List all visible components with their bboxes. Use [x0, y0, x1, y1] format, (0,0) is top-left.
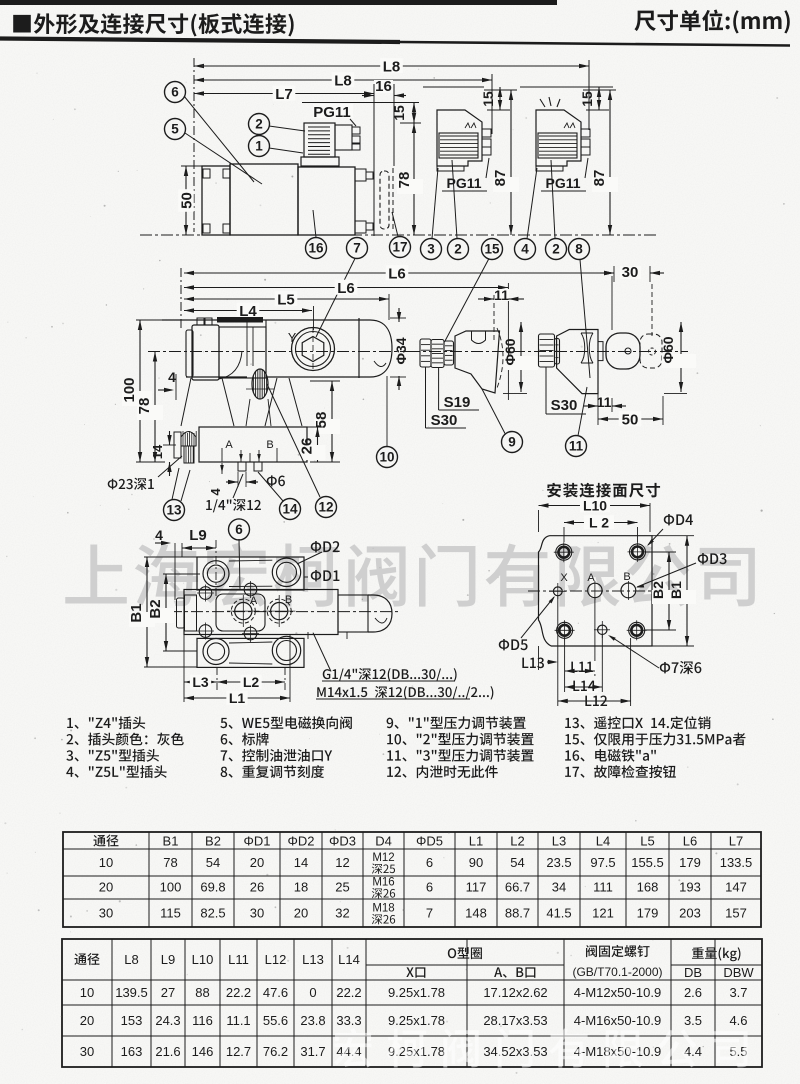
svg-text:2.6: 2.6 — [684, 985, 702, 1000]
svg-text:A: A — [225, 439, 233, 451]
svg-text:S30: S30 — [431, 412, 458, 429]
extension line left x194 — [193, 58, 195, 232]
svg-text:L1: L1 — [469, 834, 483, 849]
svg-text:11: 11 — [597, 394, 612, 410]
dim 50 variant2 — [598, 396, 663, 428]
dim L11 — [565, 661, 596, 674]
svg-text:4-M12x50-10.9: 4-M12x50-10.9 — [574, 985, 661, 1000]
svg-text:DB: DB — [684, 965, 702, 980]
dim B1 top view — [128, 557, 197, 667]
label PG11 variant2 — [541, 158, 588, 191]
dim 100 — [121, 320, 165, 462]
svg-text:Φ34: Φ34 — [393, 337, 409, 364]
svg-text:116: 116 — [192, 1013, 213, 1028]
callout 6 — [165, 82, 255, 183]
svg-text:10: 10 — [379, 450, 394, 465]
svg-text:ΦD2: ΦD2 — [288, 834, 315, 849]
dim L8 lower — [194, 72, 492, 89]
table 1 grid — [63, 832, 761, 927]
svg-text:9: 9 — [508, 435, 516, 450]
svg-text:87: 87 — [492, 170, 509, 187]
svg-text:22.2: 22.2 — [226, 985, 251, 1000]
svg-text:L14: L14 — [338, 952, 360, 967]
svg-text:30: 30 — [622, 264, 639, 281]
centerline top drawing — [140, 234, 656, 236]
svg-text:168: 168 — [637, 880, 659, 895]
push button item17 dashed — [380, 168, 393, 232]
svg-text:6: 6 — [171, 85, 179, 100]
dim 26 — [299, 427, 326, 462]
svg-text:L5: L5 — [277, 291, 295, 308]
callout 6 top view — [229, 519, 250, 590]
adjuster1 dashed circle — [494, 295, 503, 388]
svg-text:58: 58 — [313, 412, 330, 429]
svg-text:A: A — [250, 595, 258, 607]
small hole phi7 — [594, 621, 610, 638]
label phi23 — [108, 456, 182, 490]
svg-text:M18: M18 — [372, 903, 394, 915]
svg-text:193: 193 — [679, 880, 701, 895]
svg-text:14: 14 — [294, 855, 308, 870]
extension x389 — [388, 294, 390, 320]
extension line x492 — [491, 74, 493, 134]
label S19 — [439, 367, 479, 411]
svg-text:153: 153 — [121, 1013, 143, 1028]
callout 2 plug — [249, 114, 306, 135]
watermark company name — [65, 543, 755, 607]
extension dash x181 — [180, 268, 182, 330]
svg-text:203: 203 — [679, 906, 701, 921]
svg-text:30: 30 — [250, 906, 264, 921]
dim 15 variant1 — [480, 87, 510, 110]
solenoid side view — [186, 318, 219, 380]
svg-text:L10: L10 — [583, 498, 607, 514]
label phiD3 — [636, 553, 727, 588]
valve body side view — [162, 320, 370, 378]
svg-text:55.6: 55.6 — [263, 1013, 288, 1028]
svg-text:47.6: 47.6 — [263, 985, 288, 1000]
dim 14 — [150, 431, 176, 476]
centerline adjusters — [408, 351, 688, 353]
svg-text:147: 147 — [725, 880, 747, 895]
svg-text:8: 8 — [575, 242, 583, 257]
svg-text:34.52x3.53: 34.52x3.53 — [483, 1044, 547, 1059]
adjuster2 stem and wingnut — [598, 333, 640, 369]
svg-text:M16: M16 — [372, 877, 394, 889]
svg-text:88.7: 88.7 — [505, 906, 530, 921]
white watermark bottom — [334, 1028, 748, 1067]
svg-text:4: 4 — [521, 242, 529, 257]
end cap round — [359, 318, 392, 378]
svg-text:11: 11 — [494, 287, 509, 303]
svg-text:117: 117 — [466, 880, 487, 895]
label S30 variant2 — [546, 367, 586, 414]
callout 7 — [316, 238, 368, 338]
svg-text:Y: Y — [288, 331, 297, 345]
header title — [13, 13, 293, 36]
dim 30 — [600, 264, 664, 282]
svg-text:90: 90 — [469, 855, 483, 870]
svg-text:30: 30 — [80, 1044, 94, 1059]
svg-text:B2: B2 — [650, 581, 666, 599]
svg-text:24.3: 24.3 — [155, 1013, 180, 1028]
solenoid block — [298, 167, 355, 235]
label PG11 variant1 — [442, 158, 489, 191]
mounting bolt holes — [554, 542, 574, 562]
table 2 content — [74, 945, 754, 1059]
dim 11 variant1 — [478, 287, 524, 303]
port Y boss — [292, 327, 335, 372]
svg-text:L12: L12 — [265, 952, 287, 967]
svg-text:115: 115 — [160, 906, 181, 921]
svg-text:DBW: DBW — [723, 965, 754, 980]
svg-text:23.5: 23.5 — [546, 855, 571, 870]
svg-text:ΦD1: ΦD1 — [244, 834, 271, 849]
svg-text:L3: L3 — [552, 834, 566, 849]
svg-text:L6: L6 — [683, 834, 697, 849]
svg-text:ΦD5: ΦD5 — [416, 834, 443, 849]
header top bar — [0, 0, 557, 5]
svg-text:20: 20 — [250, 855, 264, 870]
dim L8 upper — [194, 58, 589, 75]
dim L4 — [184, 303, 312, 320]
svg-text:14: 14 — [282, 502, 298, 517]
dim L13 — [522, 646, 557, 670]
dim phi60 variant1 — [502, 322, 538, 393]
svg-text:28.17x3.53: 28.17x3.53 — [483, 1013, 547, 1028]
svg-text:20: 20 — [294, 906, 308, 921]
dim L1 — [184, 634, 290, 706]
svg-text:11: 11 — [569, 439, 584, 454]
adjuster top view — [308, 595, 392, 639]
dim B2 mounting — [645, 552, 678, 630]
extension x508 — [507, 283, 509, 400]
callout 13 — [164, 468, 191, 521]
svg-text:20: 20 — [80, 1013, 94, 1028]
svg-text:34: 34 — [552, 880, 566, 895]
label phi6 — [267, 475, 285, 486]
header rule — [0, 39, 790, 46]
svg-text:15: 15 — [391, 105, 407, 121]
label phi7deep6 — [608, 635, 701, 674]
dim L2 top view — [217, 667, 285, 690]
svg-text:121: 121 — [592, 906, 614, 921]
svg-text:22.2: 22.2 — [336, 985, 361, 1000]
valve left plate — [202, 166, 230, 235]
svg-text:L9: L9 — [161, 952, 175, 967]
svg-text:X: X — [560, 572, 568, 584]
label S30 variant1 — [426, 367, 467, 429]
bottom strip — [197, 636, 304, 667]
svg-text:9.25x1.78: 9.25x1.78 — [388, 1013, 445, 1028]
svg-text:L9: L9 — [189, 527, 207, 544]
svg-text:27: 27 — [161, 985, 175, 1000]
svg-text:26: 26 — [250, 880, 264, 895]
callout 16 — [306, 210, 327, 259]
svg-text:111: 111 — [593, 880, 613, 895]
dim phi60 variant2 — [660, 322, 696, 394]
label phiD4 — [647, 514, 693, 546]
label phiD5 — [499, 596, 555, 650]
svg-text:10: 10 — [99, 855, 113, 870]
port stubs — [238, 462, 262, 471]
callout 5 — [165, 119, 263, 185]
svg-text:16: 16 — [375, 78, 392, 95]
dim L6 lower — [184, 280, 508, 297]
adjuster2 dashed handwheel — [640, 334, 662, 368]
svg-text:78: 78 — [163, 855, 177, 870]
svg-text:S30: S30 — [551, 397, 578, 414]
reference line y87 variant1 — [423, 86, 484, 88]
port X hole — [549, 572, 568, 599]
svg-text:L8: L8 — [334, 72, 352, 89]
svg-text:L8: L8 — [124, 952, 138, 967]
adjuster2 body — [557, 330, 598, 394]
label G quarter — [313, 633, 457, 682]
svg-text:B: B — [285, 594, 292, 606]
vertical ext lines mounting — [558, 596, 631, 706]
plug body with stripes — [304, 123, 335, 157]
svg-text:100: 100 — [160, 880, 182, 895]
centerline side view — [148, 351, 420, 353]
bottom block — [199, 427, 307, 462]
label phiD1 — [304, 570, 339, 581]
svg-text:66.7: 66.7 — [505, 880, 530, 895]
solenoid side tabs — [355, 169, 373, 233]
svg-text:78: 78 — [396, 172, 413, 189]
spool A — [227, 595, 260, 627]
svg-text:4: 4 — [208, 488, 223, 496]
adjuster2 knob stack — [539, 334, 560, 367]
svg-text:L 2: L 2 — [589, 515, 609, 531]
dim 4 upper — [158, 369, 176, 400]
svg-text:50: 50 — [178, 192, 195, 209]
svg-text:50: 50 — [622, 411, 639, 428]
svg-text:Φ60: Φ60 — [502, 338, 518, 365]
dim 15 main — [391, 103, 421, 124]
dim L5 — [184, 291, 389, 308]
svg-text:31.7: 31.7 — [300, 1044, 325, 1059]
table 1 content — [93, 834, 752, 925]
svg-text:A: A — [587, 572, 595, 584]
svg-text:L3: L3 — [192, 674, 209, 690]
svg-text:88: 88 — [195, 985, 209, 1000]
svg-text:B: B — [266, 439, 273, 451]
svg-text:7: 7 — [353, 241, 361, 256]
callout 2 variant2 — [546, 160, 567, 260]
svg-text:L5: L5 — [640, 834, 654, 849]
svg-text:6: 6 — [426, 855, 433, 870]
dim 11 variant2 — [584, 394, 626, 425]
svg-text:2: 2 — [454, 242, 462, 257]
dim 50 — [178, 166, 202, 235]
svg-text:15: 15 — [484, 242, 500, 257]
reference line y87 variant2 — [520, 86, 613, 88]
svg-text:L1: L1 — [229, 690, 246, 706]
svg-text:L7: L7 — [729, 834, 743, 849]
dim 4 top view — [155, 527, 182, 600]
top strip — [197, 557, 304, 590]
svg-text:S19: S19 — [444, 394, 471, 411]
svg-text:10: 10 — [80, 985, 94, 1000]
svg-text:4: 4 — [168, 369, 176, 385]
left bracket top view — [177, 595, 197, 631]
svg-text:12: 12 — [318, 500, 333, 515]
port marks A B — [222, 439, 277, 462]
callout 3 — [421, 168, 442, 260]
svg-text:B2: B2 — [147, 599, 164, 618]
port A hole — [587, 572, 602, 600]
plug base — [301, 157, 339, 166]
mounting centerline — [528, 590, 658, 592]
dim B2 top view — [147, 574, 200, 651]
svg-text:4.6: 4.6 — [729, 1013, 747, 1028]
svg-text:Φ60: Φ60 — [660, 336, 676, 363]
svg-text:L10: L10 — [192, 952, 214, 967]
svg-text:PG11: PG11 — [545, 175, 580, 191]
svg-text:D4: D4 — [375, 834, 392, 849]
extension x313 Y center — [313, 306, 315, 330]
svg-text:179: 179 — [679, 855, 701, 870]
svg-text:13: 13 — [166, 503, 182, 518]
svg-text:16: 16 — [308, 241, 324, 256]
svg-text:17.12x2.62: 17.12x2.62 — [483, 985, 547, 1000]
svg-text:18: 18 — [294, 880, 308, 895]
reference line y102 — [302, 102, 419, 104]
svg-text:32: 32 — [335, 906, 349, 921]
svg-text:30: 30 — [99, 906, 113, 921]
legend — [66, 716, 745, 778]
vertical line x374 — [373, 84, 375, 236]
svg-text:6: 6 — [426, 880, 433, 895]
svg-text:L6: L6 — [337, 280, 355, 297]
svg-text:3: 3 — [427, 242, 435, 257]
callout 11 — [566, 387, 588, 457]
svg-text:B2: B2 — [205, 834, 221, 849]
dim L6 upper — [184, 265, 614, 282]
table 2 grid — [62, 939, 762, 1067]
callout 17 — [390, 212, 411, 258]
extension x612 variant2 — [611, 276, 613, 330]
port B hole — [621, 571, 636, 600]
dim L12 — [558, 695, 631, 708]
mounting face title — [547, 483, 660, 498]
svg-text:163: 163 — [121, 1044, 143, 1059]
bolt holes top view — [197, 585, 214, 602]
svg-text:9.25x1.78: 9.25x1.78 — [388, 985, 445, 1000]
adjuster1 body — [455, 331, 500, 393]
dim 16 — [362, 78, 406, 98]
svg-text:133.5: 133.5 — [720, 855, 753, 870]
funnel transition lines — [181, 378, 302, 426]
svg-text:5: 5 — [171, 122, 179, 137]
svg-text:146: 146 — [192, 1044, 214, 1059]
dim 87 variant2 — [583, 90, 618, 235]
svg-text:L7: L7 — [275, 86, 293, 103]
svg-text:PG11: PG11 — [313, 104, 351, 121]
dim 87 variant1 — [484, 90, 519, 235]
callout 14 — [258, 472, 301, 520]
label phiD2 — [297, 541, 340, 564]
svg-text:97.5: 97.5 — [590, 855, 615, 870]
svg-text:139.5: 139.5 — [115, 985, 148, 1000]
svg-text:54: 54 — [510, 855, 524, 870]
svg-text:L2: L2 — [510, 834, 524, 849]
svg-text:78: 78 — [136, 398, 153, 415]
svg-text:148: 148 — [465, 906, 487, 921]
svg-text:6: 6 — [235, 522, 243, 537]
plug variant Z5L item4 — [536, 97, 590, 171]
extension line x589 — [588, 60, 590, 130]
callout 10 — [377, 376, 398, 468]
header unit label — [634, 10, 789, 34]
svg-text:ΦD3: ΦD3 — [329, 834, 356, 849]
plug variant Z5 item3 — [437, 110, 491, 171]
svg-text:B1: B1 — [128, 603, 145, 622]
svg-text:12: 12 — [335, 855, 349, 870]
svg-text:21.6: 21.6 — [155, 1044, 180, 1059]
label Y — [288, 331, 297, 345]
svg-text:11.1: 11.1 — [226, 1013, 250, 1028]
svg-text:L4: L4 — [596, 834, 610, 849]
svg-text:B1: B1 — [668, 581, 684, 599]
dim L2 mounting — [564, 515, 638, 542]
svg-text:2: 2 — [255, 117, 263, 132]
svg-text:L11: L11 — [228, 952, 249, 967]
extension x650 variant2 — [650, 266, 652, 336]
valve main block — [230, 164, 298, 235]
label quarter inch — [206, 474, 261, 512]
svg-text:157: 157 — [725, 906, 747, 921]
dim L14 — [565, 680, 603, 693]
dim 78 side — [136, 352, 163, 463]
svg-text:7: 7 — [426, 906, 433, 921]
dim L10 — [539, 498, 651, 532]
svg-text:15: 15 — [480, 91, 496, 107]
svg-text:4: 4 — [155, 527, 163, 543]
dim L9 — [182, 527, 216, 600]
svg-text:87: 87 — [591, 170, 608, 187]
svg-text:76.2: 76.2 — [263, 1044, 288, 1059]
svg-text:L6: L6 — [388, 265, 406, 282]
svg-text:L8: L8 — [383, 58, 401, 75]
svg-text:L13: L13 — [302, 952, 324, 967]
svg-text:14: 14 — [150, 444, 165, 459]
dim 4 lower and phi6 — [208, 463, 258, 496]
centerline top view — [170, 611, 400, 613]
svg-text:41.5: 41.5 — [546, 906, 571, 921]
dim phi34 — [390, 308, 409, 390]
svg-text:0: 0 — [309, 985, 316, 1000]
vertical line x394 — [393, 84, 395, 166]
svg-text:179: 179 — [637, 906, 659, 921]
dim 78 main — [396, 123, 423, 235]
svg-text:1: 1 — [255, 139, 263, 154]
svg-text:3.7: 3.7 — [729, 985, 747, 1000]
label PG11 main — [313, 104, 356, 126]
callout 15 — [445, 239, 503, 342]
svg-text:25: 25 — [335, 880, 349, 895]
callout 4 — [515, 168, 538, 260]
svg-text:33.3: 33.3 — [336, 1013, 361, 1028]
svg-text:69.8: 69.8 — [200, 880, 225, 895]
dim B1 mounting — [652, 536, 696, 646]
svg-text:PG11: PG11 — [446, 175, 481, 191]
spool B — [263, 594, 295, 627]
X port left side — [174, 431, 196, 463]
svg-text:155.5: 155.5 — [631, 855, 664, 870]
nameplate black bar — [217, 317, 263, 323]
